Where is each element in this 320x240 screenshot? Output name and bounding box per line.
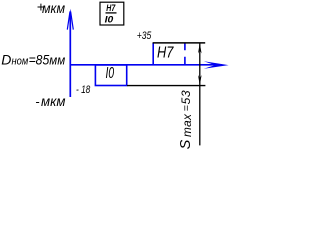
dimension arrow up (198, 43, 202, 54)
svg-text:мкм: мкм (42, 0, 65, 16)
zero line (70, 64, 222, 66)
vertical axis (69, 13, 71, 97)
svg-text:=: = (180, 105, 192, 111)
zero line arrow right (204, 61, 229, 69)
svg-text:=85: =85 (29, 52, 50, 68)
svg-text:S: S (178, 139, 194, 149)
Smax dimension line (199, 43, 201, 145)
fit fraction bar (106, 12, 117, 14)
shaft tolerance box I0 (95, 65, 126, 86)
svg-text:-: - (35, 94, 40, 109)
svg-text:53: 53 (179, 90, 193, 105)
svg-text:- 18: - 18 (76, 84, 90, 96)
fit designation box (100, 2, 124, 25)
upper deviation extension line +35 (153, 42, 206, 44)
dimension arrow down (198, 75, 202, 85)
hole tolerance box H7 left edge (152, 43, 154, 65)
svg-text:I0: I0 (105, 14, 114, 24)
axis arrow up (67, 9, 73, 30)
svg-text:H7: H7 (157, 44, 174, 61)
svg-text:ном: ном (12, 56, 29, 68)
svg-text:D: D (1, 52, 11, 68)
svg-text:+35: +35 (137, 30, 152, 42)
H7 box right edge (dashed) (184, 43, 186, 65)
svg-text:I0: I0 (106, 65, 115, 82)
svg-text:max: max (180, 113, 194, 137)
svg-text:мм: мм (49, 54, 65, 68)
svg-text:H7: H7 (106, 3, 116, 13)
lower deviation line -18 (127, 85, 205, 87)
svg-text:мкм: мкм (41, 93, 66, 109)
